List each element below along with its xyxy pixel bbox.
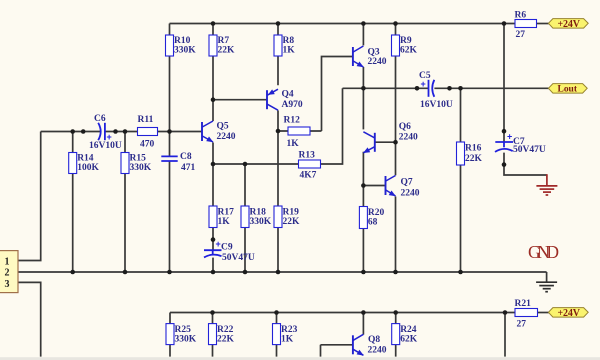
junction: feed column on bottom rail bbox=[503, 310, 508, 315]
resistor R11 470 bbox=[138, 115, 158, 150]
wire: Q7 collector stub bbox=[395, 142, 397, 175]
svg-text:50V47U: 50V47U bbox=[222, 253, 255, 263]
wire: Q4 collector to R12 node and down to R19 bbox=[277, 110, 279, 272]
resistor R13 4K7 bbox=[299, 151, 321, 181]
resistor R6 27 bbox=[515, 11, 537, 41]
wire: C5 to Lout flag bbox=[434, 87, 549, 89]
resistor R7 22K bbox=[209, 35, 235, 56]
junction: R8 top on +24V rail bbox=[276, 21, 281, 26]
junction: C6 left pin bbox=[81, 129, 86, 134]
capacitor C9 50V47U bbox=[204, 239, 255, 263]
junction: R15 bottom on bus bbox=[123, 270, 128, 275]
svg-text:R24: R24 bbox=[400, 325, 417, 335]
svg-text:R6: R6 bbox=[515, 11, 527, 21]
svg-text:330K: 330K bbox=[130, 163, 152, 173]
resistor R9 62K bbox=[392, 35, 418, 56]
svg-text:R11: R11 bbox=[138, 115, 154, 125]
svg-text:R17: R17 bbox=[218, 208, 235, 218]
svg-text:27: 27 bbox=[517, 320, 527, 330]
svg-text:16V10U: 16V10U bbox=[420, 100, 453, 110]
junction: Q3 collector on +24V rail bbox=[361, 21, 366, 26]
junction: C6 right pin bbox=[113, 129, 118, 134]
capacitor C7 50V47U bbox=[495, 132, 546, 155]
transistor Q3 2240 bbox=[353, 46, 387, 67]
wire: pin 3 lead and drop bbox=[18, 282, 41, 356]
junction: C5 left pin bbox=[415, 86, 420, 91]
wire: R6 right lead to +24V flag bbox=[537, 23, 550, 25]
svg-text:R10: R10 bbox=[174, 36, 191, 46]
junction: R18 top on emitter row bbox=[243, 162, 248, 167]
wire: C7 bottom lead to ground bbox=[504, 153, 547, 175]
ground symbol (signal bus, black) bbox=[536, 282, 557, 292]
svg-text:2240: 2240 bbox=[399, 133, 418, 143]
wire: bottom channel feed column bbox=[504, 313, 506, 357]
junction: C7 top pin bbox=[502, 129, 507, 134]
svg-text:1K: 1K bbox=[281, 335, 294, 345]
svg-text:+: + bbox=[216, 239, 221, 249]
svg-text:A970: A970 bbox=[282, 100, 303, 110]
svg-text:C9: C9 bbox=[221, 243, 233, 253]
wire: R7 column / Q5 collector bbox=[212, 24, 214, 122]
wire: Q3 emitter to Q6 collector bbox=[362, 67, 364, 129]
junction: R19 bottom on bus bbox=[276, 270, 281, 275]
svg-text:R13: R13 bbox=[299, 151, 316, 161]
svg-text:R21: R21 bbox=[515, 299, 532, 309]
wire: R23 column bbox=[276, 313, 278, 357]
wire: pin 1 lead and riser bbox=[18, 132, 41, 261]
svg-text:C8: C8 bbox=[180, 152, 192, 162]
power flag +24V (bottom) bbox=[548, 308, 588, 319]
wire: R9 column down to Q6 base node bbox=[395, 24, 397, 143]
svg-text:+24V: +24V bbox=[558, 19, 581, 30]
wire: R8 column / Q4 emitter stub bbox=[277, 24, 279, 86]
wire: R18 column bbox=[244, 164, 246, 272]
svg-text:68: 68 bbox=[368, 218, 378, 228]
svg-text:R14: R14 bbox=[77, 154, 94, 164]
svg-text:Q6: Q6 bbox=[399, 122, 411, 132]
svg-text:R9: R9 bbox=[400, 36, 412, 46]
power flag +24V (top) bbox=[548, 19, 588, 30]
wire: ground bus corner to lower ground bbox=[546, 272, 548, 282]
junction: R20 bottom on bus bbox=[361, 270, 366, 275]
wire: R25 column bbox=[169, 313, 171, 357]
svg-text:R8: R8 bbox=[283, 36, 295, 46]
svg-text:Lout: Lout bbox=[558, 85, 578, 95]
junction: R18 bottom on bus bbox=[243, 270, 248, 275]
resistor R8 1K bbox=[274, 35, 295, 56]
svg-text:330K: 330K bbox=[250, 217, 272, 227]
wire: R13 right lead to output riser bbox=[321, 88, 343, 164]
wire: Q5 emitter column to R17 bbox=[212, 143, 214, 251]
svg-text:16V10U: 16V10U bbox=[89, 141, 122, 151]
connector J1 pins 1-3 bbox=[0, 251, 18, 293]
svg-text:4K7: 4K7 bbox=[300, 171, 317, 181]
power ground symbol (C7 filter, red) bbox=[536, 174, 557, 195]
junction: R10/C8 node on input row bbox=[167, 129, 172, 134]
svg-text:1K: 1K bbox=[283, 46, 296, 56]
resistor R17 1K bbox=[209, 206, 234, 228]
svg-text:330K: 330K bbox=[174, 46, 196, 56]
svg-text:2240: 2240 bbox=[368, 57, 387, 67]
junction: R9 top on +24V rail bbox=[393, 21, 398, 26]
junction: R16 top on output row bbox=[458, 86, 463, 91]
wire: Q8 collector stub bbox=[362, 313, 364, 335]
svg-text:471: 471 bbox=[181, 163, 196, 173]
wire: Q4 base row bbox=[213, 99, 267, 101]
resistor R21 27 bbox=[515, 299, 538, 330]
junction: R7 top on +24V rail bbox=[211, 21, 216, 26]
wire: bottom +24V rail bbox=[170, 312, 515, 314]
svg-text:1: 1 bbox=[5, 256, 10, 267]
svg-text:R20: R20 bbox=[368, 208, 385, 218]
junction: R14 top on input row bbox=[70, 129, 75, 134]
wire: R22 column bbox=[212, 313, 214, 357]
svg-text:R18: R18 bbox=[250, 208, 267, 218]
capacitor C8 471 bbox=[161, 152, 195, 173]
svg-text:100K: 100K bbox=[77, 163, 99, 173]
resistor R14 100K bbox=[69, 153, 100, 174]
capacitor C5 16V10U bbox=[419, 71, 453, 110]
junction: R23 top on bottom rail bbox=[274, 310, 279, 315]
svg-text:62K: 62K bbox=[400, 335, 418, 345]
svg-text:Q7: Q7 bbox=[401, 178, 413, 188]
svg-text:1K: 1K bbox=[218, 217, 231, 227]
wire: R16 column bbox=[460, 88, 462, 272]
svg-text:R19: R19 bbox=[283, 208, 300, 218]
svg-text:+24V: +24V bbox=[558, 308, 581, 319]
wire: feedback riser R12 to Q3 base bbox=[322, 57, 353, 132]
svg-text:22K: 22K bbox=[465, 154, 483, 164]
junction: R15 top on input row bbox=[123, 129, 128, 134]
wire: R14 column bbox=[72, 132, 74, 273]
svg-text:2240: 2240 bbox=[217, 132, 236, 142]
wire: R15 column bbox=[124, 132, 126, 273]
wire: input row from pin1 riser to C6 bbox=[41, 131, 101, 133]
junction: Q3 emitter on output row bbox=[361, 86, 366, 91]
wire: R10 bottom to input node bbox=[169, 56, 171, 156]
junction: C7 column on +24V rail bbox=[502, 21, 507, 26]
wire: R12 leads bbox=[278, 130, 322, 132]
svg-text:R7: R7 bbox=[218, 36, 230, 46]
svg-text:330K: 330K bbox=[175, 335, 197, 345]
junction: Q4 base tap on R7 column bbox=[211, 97, 216, 102]
junction: C7 bottom pin bbox=[502, 162, 507, 167]
svg-text:3: 3 bbox=[5, 279, 10, 290]
wire: C9 bottom lead bbox=[212, 258, 214, 272]
svg-text:22K: 22K bbox=[217, 335, 235, 345]
svg-text:27: 27 bbox=[516, 30, 526, 40]
transistor Q6 2240 (mirrored) bbox=[363, 122, 418, 153]
resistor R15 330K bbox=[121, 153, 152, 174]
svg-text:R16: R16 bbox=[465, 144, 482, 154]
wire: C8 bottom to ground bus bbox=[169, 161, 171, 272]
resistor R20 68 bbox=[359, 207, 384, 229]
junction: C8 bottom on bus bbox=[167, 270, 172, 275]
resistor R25 330K bbox=[166, 324, 197, 345]
wire: Q7 emitter drop to bus bbox=[395, 197, 397, 273]
junction: C5 right pin bbox=[447, 86, 452, 91]
svg-text:R25: R25 bbox=[175, 325, 192, 335]
svg-text:Q4: Q4 bbox=[282, 90, 294, 100]
svg-text:R23: R23 bbox=[281, 325, 298, 335]
svg-text:Q8: Q8 bbox=[368, 335, 380, 345]
resistor R12 1K bbox=[284, 116, 311, 150]
transistor Q7 2240 bbox=[386, 176, 420, 199]
svg-text:2240: 2240 bbox=[401, 189, 420, 199]
junction: C9 positive pin bbox=[211, 237, 216, 242]
transistor Q5 2240 bbox=[202, 121, 236, 142]
resistor R19 22K bbox=[274, 206, 300, 228]
resistor R18 330K bbox=[241, 206, 272, 228]
svg-text:+: + bbox=[507, 132, 512, 142]
junction: Q7 emitter on bus bbox=[393, 270, 398, 275]
wire: Q6 emitter to R20 bbox=[362, 152, 364, 272]
junction: Q7 base / Q6 emitter column bbox=[361, 183, 366, 188]
wire: Q3 collector stub bbox=[362, 24, 364, 46]
wire: Q6 base lead bbox=[375, 141, 396, 143]
svg-text:C5: C5 bbox=[419, 71, 431, 81]
svg-text:62K: 62K bbox=[400, 46, 418, 56]
resistor R10 330K bbox=[166, 35, 197, 56]
wire: Q7 base lead bbox=[363, 185, 385, 187]
junction: Q4 collector / R12 node bbox=[276, 129, 281, 134]
transistor Q4 A970 bbox=[267, 89, 303, 110]
svg-text:GND: GND bbox=[528, 242, 559, 262]
wire: output row to C5 bbox=[343, 87, 429, 89]
svg-text:1K: 1K bbox=[287, 139, 300, 149]
wire: C6 to Q5 base bbox=[105, 131, 202, 133]
resistor R16 22K bbox=[457, 142, 483, 165]
wire: Q8 base lead and drop bbox=[321, 345, 353, 357]
wire: pin 2 ground bus bbox=[18, 271, 547, 273]
wire: R10 top lead from rail bbox=[169, 24, 171, 36]
wire: R24 column bbox=[395, 313, 397, 357]
svg-text:2240: 2240 bbox=[368, 346, 387, 356]
svg-text:50V47U: 50V47U bbox=[513, 145, 546, 155]
junction: R16 bottom on bus bbox=[458, 270, 463, 275]
junction: R24 top on bottom rail bbox=[393, 310, 398, 315]
svg-text:C6: C6 bbox=[94, 114, 106, 124]
resistor R24 62K bbox=[392, 324, 418, 345]
junction: R22 top on bottom rail bbox=[210, 310, 215, 315]
svg-text:22K: 22K bbox=[218, 46, 236, 56]
svg-text:R15: R15 bbox=[130, 154, 147, 164]
wire: +24V filter column to C7 bbox=[503, 24, 505, 143]
transistor Q8 2240 bbox=[353, 334, 387, 355]
svg-text:R12: R12 bbox=[284, 116, 301, 126]
wire: R21 right lead to +24V flag bbox=[538, 312, 550, 314]
resistor R22 22K bbox=[209, 324, 235, 345]
capacitor C6 16V10U bbox=[89, 114, 122, 151]
junction: R14 bottom on bus bbox=[70, 270, 75, 275]
svg-text:2: 2 bbox=[5, 268, 10, 279]
resistor R23 1K bbox=[273, 324, 298, 345]
svg-text:Q5: Q5 bbox=[217, 122, 229, 132]
output flag Lout bbox=[548, 84, 587, 95]
junction: Q6 base / R9 column bbox=[393, 140, 398, 145]
svg-text:22K: 22K bbox=[283, 217, 301, 227]
wire: +24V top rail bbox=[170, 23, 515, 25]
junction: C9 bottom on bus bbox=[211, 270, 216, 275]
junction: Q8 collector on bottom rail bbox=[361, 310, 366, 315]
svg-text:470: 470 bbox=[140, 140, 155, 150]
wire: emitter row Q5 to R13 bbox=[213, 163, 299, 165]
junction: Q5 emitter / R17 node bbox=[211, 162, 216, 167]
svg-text:R22: R22 bbox=[217, 325, 234, 335]
